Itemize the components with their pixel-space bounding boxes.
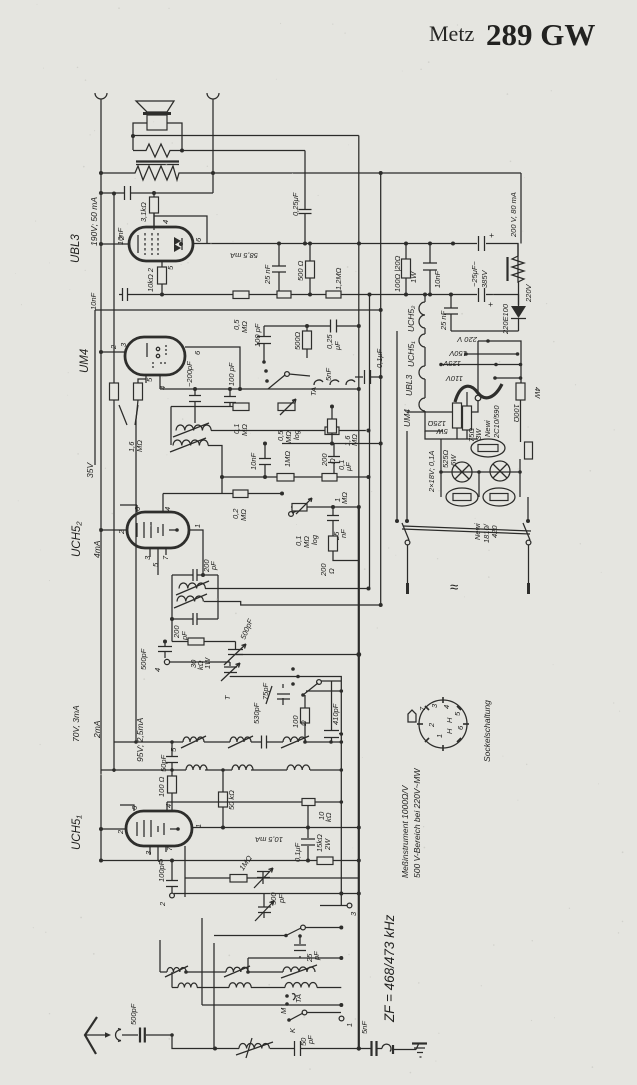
fuse resistor oval right xyxy=(483,488,515,506)
svg-text:UBL3: UBL3 xyxy=(70,234,82,263)
pin2 UCH51 xyxy=(101,828,126,830)
wire y=430.5 xyxy=(211,430,369,432)
svg-text:500pF: 500pF xyxy=(129,1003,138,1025)
svg-text:ZF = 468/473 kHz: ZF = 468/473 kHz xyxy=(382,914,397,1023)
svg-text:100Ω |20Ω: 100Ω |20Ω xyxy=(393,255,402,292)
resistor 100 ohm osc xyxy=(304,695,306,742)
tube UCH51 envelope xyxy=(126,811,192,846)
svg-text:nF: nF xyxy=(339,529,348,538)
wire 110V tap xyxy=(495,377,521,379)
wire IF2 b out xyxy=(204,602,381,606)
svg-text:pF: pF xyxy=(306,1035,315,1045)
capacitor 5nF xyxy=(359,1048,382,1050)
pins 357 UCH52 xyxy=(150,548,166,575)
wire rail x=343 xyxy=(339,1016,344,1021)
svg-text:2: 2 xyxy=(158,901,167,907)
resistor 1.6M b xyxy=(134,383,143,400)
switch arm K2 xyxy=(286,928,301,936)
wire y=860.5 xyxy=(101,860,359,862)
resistor 0.5M xyxy=(233,291,249,299)
fuse resistor top oval xyxy=(471,439,505,457)
svg-text:50pF: 50pF xyxy=(159,754,168,772)
tube UBL3 diode plates xyxy=(174,237,181,245)
wire y=443.5 xyxy=(282,443,381,445)
svg-text:289 GW: 289 GW xyxy=(486,17,595,52)
lamp 1 xyxy=(452,462,472,482)
svg-text:Newi: Newi xyxy=(483,420,492,437)
svg-text:220V: 220V xyxy=(524,283,533,303)
capacitor 0.1uF xyxy=(333,444,335,478)
node B+ drop xyxy=(379,171,383,175)
capacitor 25nF xyxy=(278,244,280,295)
antenna coil xyxy=(215,1048,239,1050)
svg-text:385V: 385V xyxy=(480,269,489,288)
capacitor 10nF if xyxy=(264,444,266,478)
svg-text:μF: μF xyxy=(333,341,342,351)
IF2 coil a xyxy=(179,583,205,589)
capacitor 0.25uF inline xyxy=(331,320,337,333)
svg-text:10nF: 10nF xyxy=(433,270,442,288)
node screen left xyxy=(99,191,103,195)
resistor 10k xyxy=(158,267,167,284)
capacitor 500pF trim xyxy=(235,642,237,650)
pin 6 UM4 wire loop xyxy=(185,347,240,389)
node smoothing taps xyxy=(357,242,361,246)
svg-text:UCH5₁: UCH5₁ xyxy=(406,341,416,367)
svg-text:1: 1 xyxy=(435,734,444,738)
resistor 100ohm 4W xyxy=(516,383,525,400)
svg-text:2: 2 xyxy=(427,722,436,728)
capacitor 50pF ant xyxy=(295,1041,301,1056)
svg-text:2C10/590: 2C10/590 xyxy=(492,405,501,439)
svg-text:log: log xyxy=(292,429,301,440)
svg-text:5W: 5W xyxy=(436,427,448,436)
wire y=905.5 stub xyxy=(320,905,347,907)
svg-text:−200pF: −200pF xyxy=(185,361,194,387)
capacitor 25uF electrolytic 2 inline xyxy=(479,288,485,302)
wire rail x=397 xyxy=(396,331,398,521)
terminal right output xyxy=(207,93,219,135)
wire y=641.5 xyxy=(172,619,236,642)
svg-text:125V: 125V xyxy=(442,359,461,368)
svg-text:4: 4 xyxy=(164,804,173,808)
IF1 coil a xyxy=(176,425,211,431)
node grid return xyxy=(280,293,284,297)
svg-text:UCH5₂: UCH5₂ xyxy=(71,521,83,557)
wire heater chain bottom xyxy=(425,431,478,439)
svg-text:95V; 2,5mA: 95V; 2,5mA xyxy=(135,717,145,762)
pin6 pin4 UCH51 xyxy=(120,802,167,811)
pins 357 UCH51 wires xyxy=(150,846,166,861)
fuse rect right xyxy=(525,442,533,459)
capacitor 410pF xyxy=(332,681,342,742)
svg-text:500 V-Bereich bei 220V~MW: 500 V-Bereich bei 220V~MW xyxy=(412,767,422,878)
resistor 100ohm 20ohm xyxy=(405,244,407,295)
capacitor 25pF xyxy=(299,936,301,958)
chassis jack curl xyxy=(382,1044,391,1051)
resistor 75ohm 3W xyxy=(466,392,468,439)
potentiometer 0.5M log xyxy=(278,403,295,411)
wire 25uF to rectifier xyxy=(486,295,519,306)
mains switch xyxy=(402,523,409,540)
svg-text:MΩ: MΩ xyxy=(239,509,248,521)
capacitor 50pF rf xyxy=(171,742,173,776)
svg-text:10nF: 10nF xyxy=(116,227,125,245)
svg-text:+: + xyxy=(488,299,493,309)
svg-text:Ω: Ω xyxy=(299,720,308,726)
svg-text:UBL3: UBL3 xyxy=(404,374,414,396)
wire rail x=380.7 xyxy=(380,173,382,605)
wire lamps xyxy=(441,439,520,497)
pin2 UCH52 wire xyxy=(101,529,127,531)
svg-text:35V: 35V xyxy=(85,462,95,478)
svg-text:1MΩ: 1MΩ xyxy=(283,451,292,467)
wire left rail x=101 xyxy=(100,101,102,862)
wire y=654.5 xyxy=(236,654,360,656)
wire AVC line y=310 xyxy=(95,310,381,465)
wire y=935.5 xyxy=(214,935,286,937)
lamp 2 xyxy=(490,461,510,481)
pin6 UCH52 wire xyxy=(120,505,137,512)
RF coil row 2 xyxy=(101,769,186,771)
wire y=1005 xyxy=(202,1004,341,1006)
svg-text:100Ω: 100Ω xyxy=(512,404,521,423)
svg-text:Sockelschaltung: Sockelschaltung xyxy=(482,700,492,762)
svg-text:pF: pF xyxy=(209,561,218,571)
wire mixer stub y=691 xyxy=(306,690,341,692)
wire screen line y=193 xyxy=(101,136,213,194)
svg-text:≈: ≈ xyxy=(450,579,458,596)
pin 5 UBL3 wire xyxy=(161,261,163,295)
voltage selector common xyxy=(477,341,479,395)
wire screen rail x=114 xyxy=(113,194,115,384)
wire IF2 a to AVC xyxy=(205,588,369,590)
svg-text:MΩ: MΩ xyxy=(350,434,359,446)
node 0.25uF anode xyxy=(303,242,307,246)
IF2 bottom cap xyxy=(172,602,218,620)
RF coil row 1 xyxy=(114,741,183,743)
wire 220V tap xyxy=(478,341,521,383)
IF2 coil b xyxy=(177,596,203,602)
node primary left xyxy=(99,171,103,175)
svg-text:220E100: 220E100 xyxy=(501,303,510,335)
fuse resistor oval left xyxy=(446,488,478,506)
node screen resistor tap xyxy=(152,191,156,195)
capacitor 100pF osc xyxy=(171,861,173,894)
svg-text:10nF: 10nF xyxy=(249,452,258,470)
pin 4 UM4 xyxy=(159,375,161,389)
svg-text:1: 1 xyxy=(345,1023,354,1027)
pin 2 3 UM4 xyxy=(101,351,125,353)
capacitor 530pF xyxy=(262,736,267,749)
pin4 UCH52 grid wire xyxy=(162,494,164,513)
node ant coil xyxy=(213,1047,217,1051)
resistor 1.6M a xyxy=(110,383,119,400)
pin 2 UBL3 xyxy=(101,243,129,245)
svg-text:500 Ω: 500 Ω xyxy=(296,260,305,281)
node speaker frame left xyxy=(131,134,135,138)
tube UBL3 envelope xyxy=(129,227,193,261)
IF1 coil b xyxy=(173,440,208,446)
resistor 200 ohm cathode xyxy=(329,536,338,551)
rectifier 220E100 xyxy=(511,306,526,318)
svg-text:M: M xyxy=(279,1007,288,1014)
wire IF1 sec to grid xyxy=(208,446,222,494)
selector wiper arc xyxy=(455,384,502,402)
svg-text:2mA: 2mA xyxy=(92,720,102,739)
tube UCH51 interior xyxy=(137,820,158,837)
terminal left output xyxy=(95,93,107,101)
svg-text:220 V: 220 V xyxy=(456,335,478,344)
socket pin7 symbol xyxy=(408,710,416,722)
tube UBL3 grids xyxy=(144,233,146,255)
wire y=958 xyxy=(248,957,341,959)
svg-text:+: + xyxy=(489,230,494,240)
capacitor 500pF osc xyxy=(262,872,264,884)
wire 150V tap xyxy=(466,353,518,355)
wire anode line UCH51 y=827.5 xyxy=(192,827,359,829)
svg-text:UM4: UM4 xyxy=(79,349,91,373)
capacitor 0.25uF xyxy=(304,151,306,244)
svg-text:4: 4 xyxy=(161,220,170,224)
resistor mains dropper zigzag xyxy=(512,244,524,283)
tube UCH52 interior xyxy=(137,522,158,538)
capacitor 10nF mains xyxy=(429,244,431,295)
pin1 UCH52 anode xyxy=(189,530,203,575)
resistor 15k 2W xyxy=(317,857,333,865)
svg-text:Ω: Ω xyxy=(327,568,336,574)
svg-text:UCH5₁: UCH5₁ xyxy=(71,815,83,850)
svg-text:500Ω: 500Ω xyxy=(293,331,302,350)
pin 5 UM4 xyxy=(145,375,147,383)
mains pins xyxy=(407,545,409,583)
wire det line y=326 xyxy=(264,325,359,327)
wire anode feed top y=135.5 xyxy=(133,135,359,137)
wire 125V tap xyxy=(441,364,521,366)
IF transformer 2 top cap 200pF xyxy=(172,575,218,619)
pin 4 UBL3 wire xyxy=(154,213,207,244)
resistor 50k xyxy=(222,770,224,828)
resistor 1.6M 2 xyxy=(325,427,339,435)
svg-text:~25μF~: ~25μF~ xyxy=(470,261,479,287)
node 2 terminal xyxy=(170,893,175,898)
svg-text:0,1μF: 0,1μF xyxy=(293,842,302,862)
svg-text:3W: 3W xyxy=(474,428,483,440)
socket diagram circle xyxy=(419,700,467,748)
resistor 1M xyxy=(277,474,294,482)
svg-text:4mA: 4mA xyxy=(92,540,102,558)
svg-text:50 kΩ: 50 kΩ xyxy=(227,790,236,810)
svg-text:100 Ω: 100 Ω xyxy=(157,776,166,797)
svg-text:25 nF: 25 nF xyxy=(439,310,448,331)
wire speaker frame xyxy=(133,123,182,150)
resistor 500 ohm xyxy=(309,244,311,295)
potentiometer 0.1M log volume xyxy=(291,506,359,508)
svg-text:190V; 50 mA: 190V; 50 mA xyxy=(89,197,99,246)
resistor 125ohm 5W xyxy=(456,403,458,439)
resistor 3.1k xyxy=(153,193,155,227)
capacitor 0.1uF cath xyxy=(307,828,309,861)
jack TA xyxy=(314,380,323,385)
wire y=878 xyxy=(185,877,359,879)
resistor 0.1M xyxy=(233,403,249,411)
heater chain xyxy=(419,295,443,432)
node rail pin2 xyxy=(99,242,103,246)
svg-text:410pF: 410pF xyxy=(331,703,340,725)
svg-text:10,5 mA: 10,5 mA xyxy=(255,835,283,844)
svg-text:UCH5₂: UCH5₂ xyxy=(406,305,416,332)
svg-text:pF: pF xyxy=(312,951,321,961)
capacitor 500pF agc xyxy=(164,642,166,659)
svg-text:2W: 2W xyxy=(323,838,332,851)
svg-text:500pF: 500pF xyxy=(139,648,148,670)
svg-text:110V: 110V xyxy=(445,374,463,383)
capacitor 10nF coupling xyxy=(125,186,131,200)
svg-text:3,1kΩ: 3,1kΩ xyxy=(139,202,148,222)
resistor 0.2M xyxy=(233,490,248,498)
svg-text:1: 1 xyxy=(193,524,202,528)
wire y=893.5 xyxy=(174,893,359,895)
svg-text:MΩ: MΩ xyxy=(340,492,349,504)
node cathode join xyxy=(160,293,164,297)
svg-text:5nF: 5nF xyxy=(324,368,333,381)
node bottom rail xyxy=(357,1046,361,1050)
capacitor 500pF ant xyxy=(122,1035,215,1049)
svg-text:TA: TA xyxy=(309,387,318,396)
svg-text:100 pF: 100 pF xyxy=(227,362,236,386)
capacitor 100pF um4 xyxy=(229,389,231,407)
node primary mid xyxy=(211,171,215,175)
svg-text:2×18V; 0,1A: 2×18V; 0,1A xyxy=(427,451,436,493)
capacitor 200pF um4 xyxy=(194,389,196,419)
svg-text:MΩ: MΩ xyxy=(240,321,249,333)
svg-text:125Ω: 125Ω xyxy=(427,419,446,428)
capacitor padder trim xyxy=(258,894,271,919)
svg-text:4W: 4W xyxy=(533,387,542,399)
wire grid return y=294.5 xyxy=(119,294,477,296)
capacitor 10nF grid xyxy=(123,288,128,301)
transformer core bars xyxy=(136,160,179,162)
svg-text:4: 4 xyxy=(153,668,162,672)
switch arm K xyxy=(287,1018,291,1022)
wire anode line y=243.5 xyxy=(193,244,518,257)
resistor 1M 2 xyxy=(322,474,337,482)
wire grid line y=389 xyxy=(160,388,359,390)
svg-text:1W: 1W xyxy=(203,657,212,669)
tube UBL3 cathode xyxy=(137,235,139,253)
capacitor trim 2 xyxy=(229,662,231,677)
resistor 200 ohm xyxy=(331,407,333,444)
resistor grid stopper b xyxy=(326,291,341,298)
svg-text:μF: μF xyxy=(344,462,353,472)
antenna xyxy=(85,1017,97,1054)
capacitor 25uF electrolytic top xyxy=(479,236,485,251)
capacitor 0.1uF avc xyxy=(355,376,381,378)
svg-text:58,5 mA: 58,5 mA xyxy=(230,251,258,260)
svg-text:150V: 150V xyxy=(448,349,467,358)
tube UM4 envelope xyxy=(125,337,185,375)
wire osc frame xyxy=(160,918,214,1049)
capacitor 100pF det2 xyxy=(263,326,265,361)
svg-text:1,2MΩ: 1,2MΩ xyxy=(334,267,343,290)
switch arm S1a xyxy=(303,683,318,695)
node speaker frame right xyxy=(180,149,184,153)
switch TA contacts xyxy=(262,360,266,364)
svg-text:TA: TA xyxy=(294,994,303,1003)
resistor grid stopper a xyxy=(277,291,291,298)
node 4 terminal xyxy=(164,659,169,664)
output transformer primary zigzag xyxy=(520,173,522,244)
wire switch pole left xyxy=(406,431,408,521)
hum coil zigzag xyxy=(133,144,305,157)
osc coil row 1 xyxy=(160,971,167,973)
svg-text:1W: 1W xyxy=(409,271,418,283)
resistor 500 ohm det xyxy=(306,326,308,358)
ground xyxy=(416,1043,419,1050)
tube UM4 interior xyxy=(146,343,148,357)
tube UCH52 envelope xyxy=(127,512,189,548)
svg-text:100pF: 100pF xyxy=(157,860,166,882)
wire y=477 xyxy=(222,476,369,478)
svg-text:10kΩ 2: 10kΩ 2 xyxy=(146,267,155,292)
svg-text:H: H xyxy=(445,717,454,723)
svg-text:kΩ: kΩ xyxy=(324,812,333,822)
svg-text:0,25μF: 0,25μF xyxy=(291,192,300,216)
svg-text:MΩ: MΩ xyxy=(240,424,249,436)
svg-text:530pF: 530pF xyxy=(252,702,261,724)
wire y=662 xyxy=(170,661,230,663)
svg-text:70V, 3mA: 70V, 3mA xyxy=(71,705,81,742)
resistor 1M osc xyxy=(230,875,247,883)
svg-text:pF: pF xyxy=(277,894,286,904)
svg-text:25 nF: 25 nF xyxy=(263,264,272,285)
jack 5nF xyxy=(330,380,339,385)
svg-text:0,1μF: 0,1μF xyxy=(375,348,384,368)
svg-text:H: H xyxy=(445,728,454,734)
wire y=676.5 xyxy=(230,677,341,906)
svg-text:log: log xyxy=(310,534,319,545)
wire y=493.5 xyxy=(163,493,282,495)
svg-text:100 pF: 100 pF xyxy=(253,323,262,347)
IF transformer 1 frame xyxy=(171,407,233,446)
node UBL3 anode xyxy=(179,242,183,246)
svg-text:4: 4 xyxy=(163,507,172,511)
resistor 10k xyxy=(167,801,341,803)
capacitor 25nF vol xyxy=(332,507,334,536)
svg-text:MΩ: MΩ xyxy=(135,440,144,452)
resistor 30k 1W xyxy=(188,638,204,645)
svg-text:4: 4 xyxy=(442,705,451,709)
svg-text:Metz: Metz xyxy=(429,21,474,46)
wire rail x=369.5 xyxy=(369,295,371,589)
speaker LS xyxy=(136,101,174,112)
osc coil row 2 xyxy=(172,987,178,989)
resistor 100 ohm rf xyxy=(168,776,177,793)
svg-text:Meßinstrument 1000Ω/V: Meßinstrument 1000Ω/V xyxy=(400,784,410,878)
svg-text:10nF: 10nF xyxy=(89,292,98,310)
svg-text:5nF: 5nF xyxy=(360,1021,369,1034)
svg-text:420: 420 xyxy=(490,525,499,538)
switch M TA contacts xyxy=(285,994,289,998)
svg-text:2: 2 xyxy=(116,829,125,835)
switch contacts wave band xyxy=(291,682,295,686)
capacitor 25nF rect xyxy=(451,295,519,332)
